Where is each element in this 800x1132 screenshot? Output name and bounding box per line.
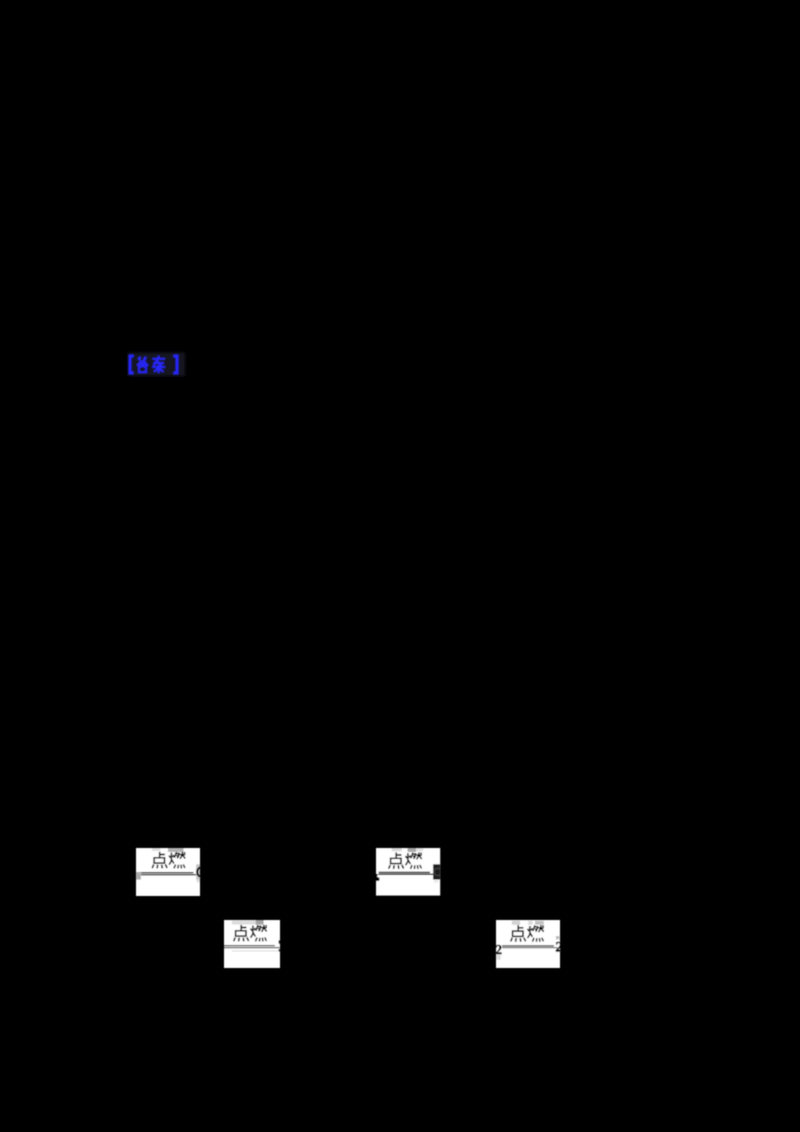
answer label 【答案】 (blue, blurred) — [130, 355, 177, 373]
svg-text:2: 2 — [555, 940, 563, 956]
equation image box 4 — [495, 920, 563, 968]
equation image box 2 — [376, 848, 441, 896]
equation image box 1: condition over double-line arrow — [136, 848, 207, 896]
equation image box 3 — [224, 920, 280, 968]
answer label glow backdrop — [128, 353, 185, 377]
